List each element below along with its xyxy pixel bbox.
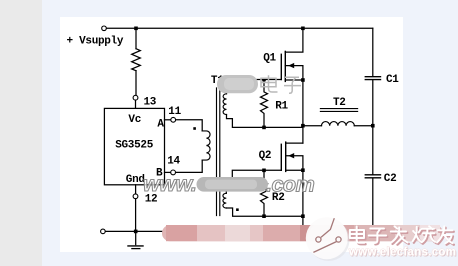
inductor T2 core lines [320,108,357,110]
node: R1 top [262,78,266,82]
node: rail / Vc resistor [134,27,138,31]
svg-text:C2: C2 [384,173,397,185]
Q2 body stub [286,156,303,171]
pin 12 terminal [135,185,137,194]
svg-text:T2: T2 [333,97,346,109]
wire: secondary1 top to gate line [227,80,282,94]
capacitor C2 [365,174,380,176]
inductor T2 winding [322,122,355,126]
wire: rail down to C1 [372,28,374,76]
node: ground junction [134,230,138,234]
Q2 source stub [286,169,303,171]
svg-text:Vc: Vc [128,114,141,126]
Q2 channel bar [285,142,287,171]
transistor Q1 body arrow [288,63,294,68]
IC U1 SG3525 box [104,108,164,184]
svg-text:R1: R1 [275,101,288,113]
transformer T1 primary winding [202,131,210,160]
wire: midpoint down to C2 [372,126,374,174]
pin 14 terminal B [165,171,171,173]
node: R2 bottom [262,214,266,218]
wire: top supply rail [106,27,373,29]
transistor Q2 body arrow [288,153,294,158]
svg-text:14: 14 [167,155,180,167]
transformer T1 core [216,88,218,216]
svg-text:Q1: Q1 [263,52,276,64]
capacitor C1 [365,76,380,78]
node: R2 top [262,169,266,173]
svg-text:A: A [157,119,164,131]
发 [392,228,409,245]
node: rail / Q1 drain [301,27,305,31]
transistor Q2 MOSFET [281,142,285,171]
svg-text:Q2: Q2 [259,150,272,162]
terminal bottom-left [101,229,106,234]
wire: Q1 source down to mid node [302,80,304,126]
red CJK logo text 电子发烧友 (drawn glyphs) [351,228,454,245]
resistor Rvc (unlabeled) [132,49,141,71]
polarity dot primary [193,127,196,130]
Q1 channel bar [284,51,286,81]
node: Q1 source/body [301,78,305,82]
wire: secondary1 bottom step to R1 bottom line [227,115,303,128]
Q2 drain stub [286,142,303,144]
polarity dot secondary 2 [236,208,239,211]
wire: pin 12 to ground rail [135,199,137,232]
wire: pin 14 to transformer primary bottom [176,160,203,172]
node: capacitor midpoint [371,124,375,128]
wire: Q2 gate line [226,170,281,193]
grey watermark row 2: blur blob [197,177,269,192]
pin 13 terminal [133,95,138,100]
wire: mid node down to Q2 drain [302,126,304,143]
left grey sidebar [0,0,42,266]
grey watermark row 1: blur blob [217,75,258,93]
transistor Q1 MOSFET [281,51,285,81]
ground symbol [135,231,137,244]
Q2 gate bar [280,144,282,170]
node: R1 bottom [262,126,266,130]
svg-text:Gnd: Gnd [126,174,145,186]
wire: C2 down to ground rail [372,179,374,232]
友 [438,228,454,245]
电 [351,228,365,244]
resistor R2 [261,170,268,216]
svg-text:+ Vsupply: + Vsupply [67,36,124,48]
wire: pin 11 to transformer primary top [176,120,203,131]
wire: Q2 source down to bottom line [302,170,304,216]
Q1 gate bar [280,54,282,79]
red watermark band [162,225,443,241]
node: Q2 source/body [301,168,305,172]
wire: Vc dropper from rail to resistor [135,28,137,48]
ground rail (bottom) [105,230,373,232]
transformer T1 secondary 2 (bottom) [223,193,226,208]
Q1 body stub [285,66,303,80]
svg-text:www.: www. [143,172,196,196]
node: Q2 source at bottom line [301,214,305,218]
wire: resistor to pin 13 [135,71,137,96]
terminal + Vsupply [102,26,107,31]
子 [370,230,387,245]
Q1 drain stub [285,28,303,52]
wire: T2 to capacitor midpoint [354,125,373,127]
grey watermark row 1: 子 glyph [284,77,301,93]
wire: pin13 to box [135,100,137,108]
wire: C1 to midpoint [372,80,374,125]
node: half-bridge midpoint [301,124,305,128]
wire: secondary2 bottom step to bottom line [226,208,303,216]
wire: Q2 source line into ground rail [302,216,304,231]
grey watermark row 1: 电 glyph [261,75,301,93]
svg-text:13: 13 [144,97,157,109]
svg-text:C1: C1 [386,74,399,86]
svg-text:.com: .com [266,173,315,197]
svg-text:www.elecfans.com: www.elecfans.com [348,246,456,258]
svg-text:SG3525: SG3525 [115,140,154,152]
wire: mid node to T2 [303,125,322,127]
svg-text:11: 11 [168,106,181,118]
烧 [414,228,436,244]
logo badge circle [308,219,350,261]
transformer T1 secondary 1 (top) [223,94,226,115]
pin 11 terminal A [165,119,171,121]
Q1 source stub [285,79,303,81]
white schematic canvas [60,17,403,252]
logo icon [313,218,341,252]
resistor R1 [261,80,268,128]
